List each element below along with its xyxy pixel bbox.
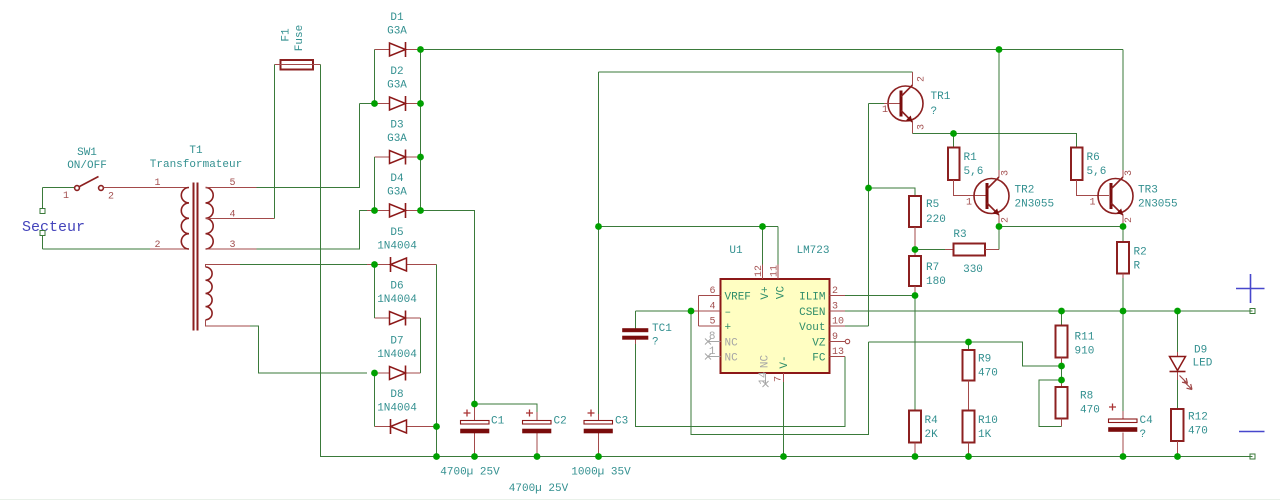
svg-text:V+: V+ [760,286,772,299]
svg-text:2: 2 [832,286,838,297]
diode D1 symbol [375,42,421,57]
junction (474.5,456.5) [471,453,478,460]
wire TR3 collector from rail [1122,50,1124,171]
pin 1 NC [705,354,721,360]
junction (374.5,210.5) [371,207,378,214]
svg-text:1: 1 [154,178,160,189]
junction (436.5,456.5) [433,453,440,460]
svg-text:C4: C4 [1140,415,1154,427]
junction (1123,226.5) [1120,223,1127,230]
wire inverting input net [636,311,869,435]
pin 11 VC [777,265,779,280]
diode D3 [375,120,421,165]
junction (374.5,103.5) [371,100,378,107]
svg-text:V-: V- [779,355,791,368]
junction (1061.5,311) [1058,308,1065,315]
resistor R2 [1117,227,1147,312]
junction (598.5,226.5) [595,223,602,230]
svg-text:1N4004: 1N4004 [377,403,417,415]
capacitor C3 [571,72,631,479]
resistor R12 [1171,380,1208,457]
capacitor C4 [1109,311,1154,457]
svg-text:R8: R8 [1080,391,1093,403]
resistor R6 [1071,148,1109,196]
svg-text:2: 2 [108,192,114,203]
wire V- to bottom rail [783,382,785,457]
svg-text:R5: R5 [926,199,939,211]
svg-text:D7: D7 [390,336,403,348]
secondary winding upper [206,188,214,250]
svg-text:14: 14 [758,371,770,385]
svg-text:D5: D5 [390,227,403,239]
diode D7 [375,336,421,381]
junction (999,49.5) [996,46,1003,53]
svg-text:3: 3 [832,302,838,313]
wire [104,188,190,250]
svg-text:5: 5 [709,317,715,328]
svg-text:C1: C1 [491,416,505,428]
svg-text:FC: FC [812,353,826,365]
junction (436.5,426.5) [433,423,440,430]
svg-text:1N4004: 1N4004 [377,349,417,361]
junction (1061.5,380) [1058,377,1065,384]
svg-text:Fuse: Fuse [294,25,306,51]
transistor TR2 [966,170,1054,227]
capacitor TC1 [623,311,673,349]
svg-text:LM723: LM723 [796,245,829,257]
pin 3 CSEN [830,310,846,312]
junction (783.5,456.5) [780,453,787,460]
svg-text:D6: D6 [390,281,403,293]
svg-text:R6: R6 [1087,152,1100,164]
node Secteur [22,209,85,237]
resistor R4 [909,411,938,457]
wire D5-D6 link [374,265,376,319]
pin 5 lead [206,187,257,189]
wire D6-D7 cathode link [420,318,422,373]
svg-text:R9: R9 [978,354,991,366]
junction (968.5,342) [965,339,972,346]
svg-text:470: 470 [1188,426,1208,438]
LED D9 [1170,311,1213,390]
svg-text:1K: 1K [978,429,992,441]
svg-text:6: 6 [709,286,715,297]
junction (691,311) [688,308,695,315]
wire R7 to R4 column [914,296,916,411]
wire CSEN output plus line [845,310,1253,312]
wire ILIM to R7 junction [845,295,915,297]
junction (420.5,49.5) [417,46,424,53]
transistor TR3 [1090,170,1178,227]
svg-text:LED: LED [1193,358,1213,370]
svg-text:9: 9 [832,332,838,343]
wire D5-D8 anode column to rail [436,265,438,457]
svg-text:R7: R7 [926,262,939,274]
svg-text:C3: C3 [615,416,628,428]
junction (915,456.5) [912,453,919,460]
svg-text:1N4004: 1N4004 [377,294,417,306]
svg-text:2K: 2K [925,429,939,441]
svg-text:ILIM: ILIM [799,292,825,304]
svg-text:180: 180 [926,276,946,288]
svg-text:2: 2 [154,240,160,251]
core [194,183,198,331]
wire Vout riser to TR1 base [845,104,884,327]
wire lower winding bottom to D7 [250,326,367,373]
wire R5 branch [869,188,916,196]
svg-text:1: 1 [966,198,972,209]
svg-text:VREF: VREF [725,292,751,304]
wire fuse left to pin4 [274,65,276,219]
svg-text:470: 470 [978,368,998,380]
svg-text:2N3055: 2N3055 [1138,199,1178,211]
svg-text:D4: D4 [390,173,404,185]
svg-text:R11: R11 [1075,332,1095,344]
svg-text:G3A: G3A [387,187,407,199]
svg-text:11: 11 [770,265,781,277]
svg-text:3: 3 [1124,170,1135,176]
svg-text:3: 3 [1001,170,1012,176]
svg-text:1: 1 [882,105,888,116]
wire D1-D2 anode link [360,50,375,104]
svg-text:12: 12 [754,265,765,277]
svg-text:1N4004: 1N4004 [377,241,417,253]
svg-text:1: 1 [1090,198,1096,209]
resistor R9 [963,342,998,411]
wire pin5 to D1/D2 anodes [257,104,360,188]
svg-text:R12: R12 [1188,412,1208,424]
fuse F1 [275,25,321,70]
svg-text:Secteur: Secteur [22,219,85,236]
svg-text:1000µ 35V: 1000µ 35V [571,467,631,479]
svg-text:G3A: G3A [387,26,407,38]
junction (1177.5,311) [1174,308,1181,315]
resistor R10 [963,411,998,457]
svg-text:NC: NC [760,355,772,369]
pin 3 lead [206,248,257,250]
svg-text:910: 910 [1075,346,1095,358]
svg-text:5,6: 5,6 [964,166,984,178]
diode D1 [387,12,407,38]
sheet frame line [0,499,1280,501]
wire D7-D8 link [374,373,376,427]
lower winding leads [206,265,251,327]
pin 6 VREF [699,295,721,297]
svg-text:R10: R10 [978,415,998,427]
svg-text:D9: D9 [1194,345,1207,357]
svg-text:?: ? [1140,429,1147,441]
svg-text:ON/OFF: ON/OFF [67,160,107,172]
junction (374.5,264.5) [371,261,378,268]
pin 12 V+ [762,265,764,280]
pin 7 V- [783,373,785,382]
pin 14 NC [763,373,769,387]
svg-text:470: 470 [1080,405,1100,417]
svg-text:TR3: TR3 [1138,185,1158,197]
svg-text:D2: D2 [390,66,403,78]
svg-text:R4: R4 [925,415,939,427]
svg-text:NC: NC [725,338,739,350]
wire [43,188,151,250]
junction (1061.5,366) [1058,363,1065,370]
svg-text:?: ? [652,337,659,349]
junction (762.5,226.5) [759,223,766,230]
junction (537,456.5) [534,453,541,460]
svg-text:R1: R1 [964,152,978,164]
junction (999,226.5) [996,223,1003,230]
junction (868.5,188) [865,185,872,192]
svg-text:F1: F1 [281,28,293,42]
svg-text:4700µ 25V: 4700µ 25V [440,467,500,479]
svg-text:Transformateur: Transformateur [150,159,242,171]
svg-text:Vout: Vout [799,322,825,334]
junction (953.5,133.5) [950,130,957,137]
wire R11 to R8 [1061,366,1063,380]
svg-text:8: 8 [709,331,716,343]
capacitor C1 [440,404,504,479]
pin 4 inverting [691,310,721,312]
resistor R5 [909,196,946,250]
svg-text:4700µ 25V: 4700µ 25V [509,483,569,495]
wire TR2 collector from rail [998,50,1000,171]
svg-text:VZ: VZ [812,338,826,350]
capacitor C2 [509,410,569,496]
svg-text:10: 10 [832,317,844,328]
svg-text:T1: T1 [189,145,203,157]
wire TC1 bottom to FC [636,344,846,427]
svg-text:2: 2 [1124,217,1135,223]
junction (1123,311) [1120,308,1127,315]
wire emitter bus TR2-TR3 [999,226,1123,228]
pin 13 FC [830,356,846,358]
svg-text:SW1: SW1 [77,147,97,159]
wire feedback line [869,342,1062,366]
op-amp U1 LM723 [691,245,850,387]
svg-text:R: R [1134,261,1141,273]
svg-text:?: ? [931,106,938,118]
svg-text:TR1: TR1 [931,91,951,103]
svg-text:D3: D3 [390,120,403,132]
primary winding [181,188,189,250]
transistor TR1 [882,72,951,134]
svg-text:1: 1 [63,191,69,202]
junction (1123,456.5) [1120,453,1127,460]
pin 4 lead [206,218,275,220]
junction (420.5,157) [417,154,424,161]
svg-text:220: 220 [926,214,946,226]
svg-text:CSEN: CSEN [799,307,825,319]
svg-text:R3: R3 [953,229,966,241]
junction (915,295.5) [912,292,919,299]
diode D5 [367,227,437,272]
svg-text:C2: C2 [554,416,567,428]
diode D2 [375,66,421,111]
junction (374.5,373) [371,370,378,377]
switch SW1 [63,147,114,203]
svg-text:R2: R2 [1134,247,1147,259]
svg-text:1: 1 [709,346,716,358]
node output minus [1239,432,1265,460]
junction (968.5,456.5) [965,453,972,460]
diode D6 [375,281,421,326]
pin 10 Vout [830,325,846,327]
wire TR1 emitter line [913,134,1077,148]
svg-text:3: 3 [917,124,928,130]
wire D3-D4 anode link [374,157,376,211]
svg-text:–: – [725,307,732,319]
pin 9 VZ unconnected [830,341,846,343]
secondary winding lower [206,267,213,320]
wire R8 bypass strap [1039,380,1062,427]
svg-text:330: 330 [963,264,983,276]
svg-text:D8: D8 [390,389,403,401]
svg-text:G3A: G3A [387,80,407,92]
diode D4 [367,173,421,218]
transformer T1 [150,145,275,331]
svg-text:4: 4 [709,302,715,313]
wire lower winding top to D5 [240,264,367,266]
wire cathode column D1-D4 [420,50,422,211]
wire D4 cathode to C1 [421,211,538,413]
svg-text:VC: VC [776,286,788,300]
svg-text:TR2: TR2 [1015,185,1035,197]
diode D8 [375,389,437,434]
junction (915,249.5) [912,246,919,253]
junction (1177.5,456.5) [1174,453,1181,460]
resistor R11 [1056,311,1095,366]
resistor R8 [1056,380,1100,427]
svg-text:2: 2 [1001,217,1012,223]
resistor R7 [909,250,946,296]
junction (598.5,456.5) [595,453,602,460]
junction (474.5,404) [471,401,478,408]
wire pin3 to D3/D4 anodes [257,211,368,250]
resistor R3 [915,227,999,277]
pin 5 non-inverting [699,325,721,327]
wire fuse right to bottom rail [321,65,1253,457]
svg-text:TC1: TC1 [652,323,672,335]
svg-text:2N3055: 2N3055 [1015,199,1055,211]
svg-text:7: 7 [774,376,785,382]
svg-text:2: 2 [917,76,928,82]
svg-text:U1: U1 [729,245,743,257]
junction (420.5,103.5) [417,100,424,107]
wire top rail [421,49,1124,51]
svg-text:G3A: G3A [387,133,407,145]
node output plus [1236,274,1265,314]
svg-text:NC: NC [725,353,739,365]
svg-text:5,6: 5,6 [1087,166,1107,178]
wire bracket pin6 to pin5 [698,296,700,327]
wire V+ net TR1 collector [599,72,913,265]
svg-text:D1: D1 [390,12,404,24]
pin 8 NC [705,339,721,345]
junction (420.5,210.5) [417,207,424,214]
resistor R1 [948,134,986,196]
svg-text:+: + [725,322,732,334]
pin 2 ILIM [830,295,846,297]
svg-text:13: 13 [832,347,844,358]
